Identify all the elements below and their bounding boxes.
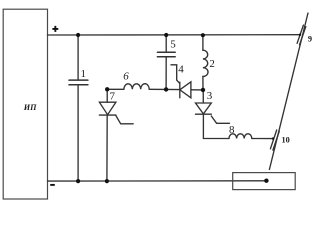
svg-text:1: 1 bbox=[81, 68, 87, 80]
thyristor VS3 gate bbox=[211, 116, 229, 123]
power supply ИП box bbox=[3, 9, 47, 199]
svg-text:5: 5 bbox=[170, 38, 176, 50]
sliding contact 10 bbox=[270, 130, 279, 150]
sliding contact 9 bbox=[297, 25, 306, 45]
junction dot L2 bottom / VS3 anode bbox=[201, 88, 205, 92]
junction dot C1 bottom bbox=[76, 179, 80, 183]
svg-text:7: 7 bbox=[110, 90, 116, 102]
svg-text:8: 8 bbox=[229, 124, 235, 136]
contact dot inside workpiece bbox=[264, 179, 268, 183]
junction dot VS7 cathode bbox=[105, 179, 109, 183]
thyristor VS7 gate bbox=[116, 116, 133, 124]
wire inductor L8 to contact 10 bbox=[252, 138, 274, 140]
inductor L6 bbox=[107, 84, 166, 90]
junction dot C5 top bbox=[164, 33, 168, 37]
junction dot VS7 anode bbox=[105, 87, 109, 91]
wire VS3 cathode to inductor L8 bbox=[203, 114, 229, 138]
inductor L2 (vertical) bbox=[203, 35, 208, 90]
workpiece box bbox=[233, 173, 296, 190]
svg-text:ИП: ИП bbox=[23, 103, 37, 112]
label + terminal bbox=[52, 26, 58, 32]
capacitor C1 bbox=[69, 35, 88, 181]
junction dot L2 top bbox=[201, 33, 205, 37]
thyristor VS4 (horizontal) bbox=[166, 82, 203, 98]
inductor L8 bbox=[229, 134, 252, 139]
svg-text:3: 3 bbox=[207, 90, 213, 102]
svg-text:10: 10 bbox=[282, 135, 290, 144]
thyristor VS3 bbox=[196, 90, 212, 114]
label − terminal bbox=[50, 184, 55, 186]
svg-text:4: 4 bbox=[178, 64, 184, 76]
wire negative bus (bottom rail) bbox=[48, 180, 267, 182]
wire end dot at contact 9 bbox=[299, 34, 301, 36]
thyristor VS7 bbox=[99, 89, 116, 181]
svg-text:2: 2 bbox=[209, 58, 215, 70]
svg-text:6: 6 bbox=[123, 70, 129, 82]
junction dot C1 top bbox=[76, 33, 80, 37]
electrode wire (long diagonal) bbox=[269, 13, 308, 170]
svg-text:9: 9 bbox=[308, 35, 312, 44]
capacitor C5 bbox=[157, 35, 175, 89]
junction dot C5 bottom bbox=[164, 87, 168, 91]
wire positive bus (top rail) bbox=[48, 34, 301, 36]
thyristor VS4 gate bbox=[171, 65, 180, 84]
wire end dot at contact 10 bbox=[272, 137, 274, 139]
